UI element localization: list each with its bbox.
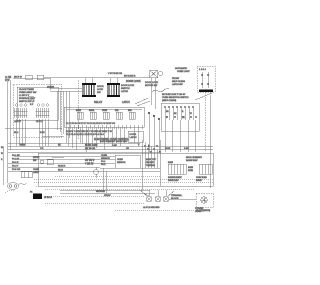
label element row [100,140,128,143]
arc swoosh bottom-left [4,190,14,193]
horizontal wire bus group [8,143,213,171]
door latch box P2 [128,131,143,142]
svg-text:R: R [182,111,184,113]
bake element module [168,161,186,174]
svg-text:V GY W-BK OR: V GY W-BK OR [108,73,123,75]
wire horiz y136 left [42,136,64,138]
svg-text:ELEM: ELEM [188,170,193,172]
svg-text:BK W OR: BK W OR [85,149,96,151]
svg-text:W-BK: W-BK [20,145,26,147]
svg-text:BK-R: BK-R [58,170,63,172]
label automatic oven light [175,67,190,73]
oven light OL1 [40,160,53,165]
svg-text:P4: P4 [30,192,32,194]
relay coil ladder A [82,83,96,97]
svg-text:FRONT: FRONT [172,78,180,80]
wires converging into terminals [140,190,174,196]
label cluster clock [19,89,37,106]
relay K4 [115,110,122,119]
wire left drop 1 [7,81,9,178]
svg-text:CONV: CONV [102,110,108,112]
wire left drop 2 [10,80,12,150]
control panel box P1 [14,84,62,137]
svg-text:STRAP: STRAP [104,194,111,197]
svg-text:SENSOR: SENSOR [117,162,126,164]
svg-text:GY BU V: GY BU V [85,160,95,162]
svg-text:DLB: DLB [115,110,119,112]
label between ladders [97,86,104,94]
svg-text:LATCH: LATCH [121,90,128,93]
oven light switch box dashed [197,66,215,92]
wire top bus [13,77,50,79]
svg-text:OVEN LIGHT: OVEN LIGHT [177,71,190,73]
relay coil ladder B [107,83,120,97]
svg-text:THERMO: THERMO [146,165,155,167]
svg-text:3400W 240V: 3400W 240V [186,160,198,162]
wire pointer to light switch [195,93,212,100]
label door lock motor [145,82,159,87]
wire drops from door lock [151,78,155,109]
small box next to oval [21,172,32,178]
svg-text:R-BK: R-BK [40,132,45,134]
svg-text:BAKE: BAKE [76,109,82,112]
center-right verticals with nodes [148,112,160,152]
svg-text:BAKE ELEMENT 3400W 240V: BAKE ELEMENT 3400W 240V [100,140,128,143]
board pin labels row [66,122,116,125]
relay K5 [128,109,135,119]
power cord dashed box [196,193,213,207]
wire horiz y128 left [5,127,62,129]
motor M circle [159,72,163,76]
svg-text:TERMINAL: TERMINAL [171,194,183,197]
svg-text:P3-5 OR: P3-5 OR [12,169,21,171]
sensor box [115,155,140,168]
svg-text:DOOR LOCK: DOOR LOCK [126,80,141,83]
control panel inner box [17,87,58,120]
oven box lower right [38,153,213,186]
svg-text:SURFACE UNIT: SURFACE UNIT [19,97,36,100]
label electronic oven control [94,138,130,141]
door switch oval bottom-left [8,183,19,190]
relay K3 [102,110,109,119]
wire label rows under board [66,131,113,136]
svg-text:DOOR: DOOR [97,86,104,88]
svg-text:LATCH SW: LATCH SW [172,83,183,86]
board top bus [66,108,142,110]
fuse F1 top bus box 1 [26,75,33,80]
wire horiz y88 [50,87,82,89]
svg-text:BK W-BK R-BK Y OR GY: BK W-BK R-BK Y OR GY [162,94,186,96]
svg-text:W BK-R: W BK-R [44,197,52,199]
left margin tiny labels [1,147,4,161]
svg-text:SW: SW [33,160,36,162]
svg-text:L1 H L2: L1 H L2 [14,121,21,123]
svg-text:LIGHT: LIGHT [33,172,40,174]
right long verticals [205,92,210,188]
selector bank inner labels [166,111,192,119]
wires latch up right [135,98,150,106]
svg-text:R: R [1,159,3,161]
relay K1 [76,109,83,119]
svg-text:(SELF-CLEAN): (SELF-CLEAN) [162,99,177,102]
svg-text:W-BK R-BK: W-BK R-BK [85,145,98,147]
inner text cluster hi-limit [146,158,157,167]
svg-text:R P: R P [30,104,34,106]
svg-text:AUTOMATIC: AUTOMATIC [175,67,188,70]
svg-text:SW: SW [97,92,101,94]
label under power cord [196,209,210,212]
svg-text:DOOR LOCK: DOOR LOCK [121,85,135,87]
label LATCH above board [122,101,130,104]
labels under terminals [143,207,160,209]
svg-text:BK W-BK R: BK W-BK R [124,76,136,78]
ground lug black box [33,194,42,200]
svg-text:W: W [190,113,192,115]
svg-text:GROUND: GROUND [96,191,105,193]
svg-text:SENSOR: SENSOR [101,158,110,160]
svg-text:BK: BK [174,113,177,115]
svg-text:OVEN LIGHT SW: OVEN LIGHT SW [19,92,37,94]
wire labels left cluster [12,155,21,171]
svg-text:P4-2: P4-2 [101,164,106,166]
svg-text:CONV ELEM: CONV ELEM [196,177,207,179]
svg-text:(BLACK)(WHITE): (BLACK)(WHITE) [196,209,210,212]
left margin vertical [2,147,4,185]
svg-text:SWITCH: SWITCH [121,88,130,90]
right bank top line [162,102,198,104]
node L1 label block top-left [5,77,12,82]
svg-text:BK R W: BK R W [14,77,23,79]
svg-text:OVEN: OVEN [117,159,123,161]
svg-text:Y BR W: Y BR W [85,164,94,166]
svg-text:BR: BR [166,111,169,113]
svg-text:BK: BK [1,147,4,149]
selector contacts row 2 [166,116,197,118]
inner text cluster oven sensor [101,155,110,166]
svg-text:P3-3 R: P3-3 R [12,162,19,164]
wire rows to terminal block [60,190,155,193]
svg-text:P3-1 BK: P3-1 BK [12,155,20,157]
wire fan verticals center-left [57,91,69,138]
svg-text:W-BK: W-BK [165,148,171,150]
wire top center labels [108,73,150,83]
svg-text:BAKE: BAKE [168,161,174,164]
wire color labels bold cluster 1 [85,145,98,151]
svg-text:MAIN TOP: MAIN TOP [146,158,157,161]
svg-text:LOCK: LOCK [97,89,103,91]
svg-text:R-BK: R-BK [112,145,117,147]
electronic oven control board U1 [64,107,144,127]
wire vertical from bus [49,78,51,90]
svg-text:R-BK: R-BK [184,148,189,150]
right bank label rows [162,94,189,102]
svg-text:LATCH: LATCH [122,101,130,104]
wire oval to right [19,184,27,185]
svg-text:MOTOR SW: MOTOR SW [145,85,158,87]
wire left drop to oval [7,178,9,183]
switch bank S2 right [36,104,50,118]
label front self clean [172,78,185,86]
svg-text:2600W 240V: 2600W 240V [168,180,179,182]
label ground strap [96,191,111,197]
label near ground lug [30,192,52,200]
svg-text:2500W: 2500W [196,180,202,182]
broil element module [188,164,212,174]
svg-text:BAKE: BAKE [188,166,194,169]
svg-text:OVEN: OVEN [101,155,107,157]
terminal T3 [163,190,169,202]
svg-text:OVEN: OVEN [33,169,39,171]
wire color labels bold cluster 2 [85,160,95,166]
bake element label [186,157,203,162]
svg-text:W-BK R: W-BK R [58,166,66,168]
ladder stubs to top bus [44,78,122,84]
label OVEN bold [47,86,54,89]
svg-text:L1 N L2 GROUND: L1 N L2 GROUND [143,207,160,209]
svg-text:P3-2 W: P3-2 W [12,159,19,161]
door switch cluster labels [33,157,40,174]
svg-text:P4-1: P4-1 [101,161,106,163]
element bottom labels [168,176,207,182]
bus scattered labels [20,145,189,150]
svg-text:DOOR: DOOR [33,157,40,159]
oven selector switch contacts [164,106,194,120]
lower-left wire segments [33,157,70,167]
terminal T2 [155,190,161,202]
wire terminal to cord [169,198,196,200]
dotted wire rows [34,176,213,210]
selector switch box [161,103,199,131]
wire drops board to bus region [66,127,138,152]
svg-text:CLOCK TIMER: CLOCK TIMER [19,89,34,91]
svg-text:Y-R: Y-R [40,148,44,150]
svg-text:LATCH: LATCH [130,136,137,139]
svg-text:L1 BK: L1 BK [5,77,12,79]
terminal T1 [146,190,152,202]
svg-text:P3-4 Y: P3-4 Y [12,166,19,168]
convection fan motor [94,167,99,178]
solenoid DLM box [150,70,158,78]
wire squiggle below DLM [152,89,169,92]
label right of ladder B [121,85,135,93]
relay K2 [89,110,96,119]
svg-text:DOOR: DOOR [130,134,137,136]
label RELAY [94,100,103,104]
selector wire drops [165,120,195,152]
vertical wires center-right grid [142,140,161,190]
switch bank bottom labels [14,121,43,123]
left mid labels [14,132,45,134]
center low labels [58,166,66,172]
svg-text:BROIL: BROIL [89,110,94,112]
svg-text:SELF-CLEAN: SELF-CLEAN [172,80,185,83]
svg-text:P1 P2 P3 P4 P5 P6 P7 P8 P9 PA: P1 P2 P3 P4 P5 P6 P7 P8 P9 PA PB PC PD P… [66,122,116,125]
svg-text:FAN: FAN [128,109,132,112]
svg-text:HI-LIMIT: HI-LIMIT [146,162,155,164]
label terminal block [171,194,183,200]
wire drops from switch banks [16,119,48,146]
fuse F2 top bus box 2 [37,75,44,80]
svg-text:L1 H L2: L1 H L2 [36,121,43,123]
wire horiz y91 [50,90,82,92]
board pin tick row [66,125,142,129]
svg-text:RELAY: RELAY [94,100,103,104]
svg-text:1 2 3 4: 1 2 3 4 [199,69,206,71]
switch bank S1 left [14,104,28,118]
svg-text:SWITCH RF LF: SWITCH RF LF [19,101,35,103]
svg-text:W: W [1,153,3,155]
svg-text:BAKE ELEMENT: BAKE ELEMENT [168,176,183,179]
svg-text:OVEN SELECTOR SWITCH: OVEN SELECTOR SWITCH [162,97,189,99]
label power cord [195,208,204,213]
wire pair drop center [103,168,106,193]
svg-text:BK W R Y OR GY BU BR V W BK R-: BK W R Y OR GY BU BR V W BK R-BK W-BK Y … [66,131,113,133]
svg-text:OVEN: OVEN [47,86,54,89]
svg-text:BROIL ELEMENT: BROIL ELEMENT [186,157,203,159]
wire dashed vertical x78 [78,80,80,140]
svg-text:DOOR LOCK: DOOR LOCK [145,82,159,84]
